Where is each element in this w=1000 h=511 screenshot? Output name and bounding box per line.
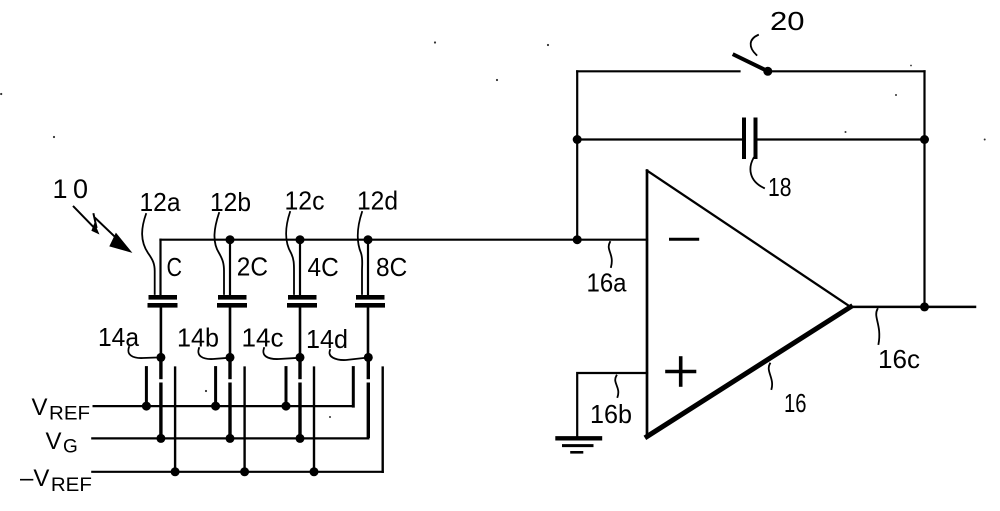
op-amp U16 triangle	[647, 171, 851, 437]
svg-text:8C: 8C	[376, 252, 407, 282]
wire feedback cap line right segment	[758, 138, 925, 140]
junction dot 14b on VG	[226, 434, 235, 443]
switch 14c	[286, 353, 314, 472]
switch 14d	[353, 353, 382, 472]
capacitor 18	[744, 120, 756, 158]
leader 12c	[286, 212, 294, 294]
svg-text:16c: 16c	[878, 344, 920, 374]
leader 14d	[329, 350, 364, 360]
junction dot 14b on VREF	[211, 402, 220, 411]
junction dot 14c on VREF	[282, 402, 291, 411]
svg-text:16a: 16a	[587, 268, 627, 298]
svg-text:12d: 12d	[357, 186, 398, 216]
switch 20 arm	[735, 55, 769, 71]
leader 18	[750, 158, 764, 188]
junction dot 14c on -VREF	[310, 467, 319, 476]
node junction dot 12b on bus	[226, 235, 235, 244]
minus sign inverting input	[671, 238, 698, 241]
switch 14b	[216, 353, 245, 472]
leader 16b	[615, 376, 618, 398]
capacitor 4C (12c)	[287, 240, 317, 357]
wire feedback cap line left segment	[577, 138, 741, 140]
svg-text:14d: 14d	[306, 324, 348, 354]
svg-text:14b: 14b	[177, 323, 219, 353]
leader 16c	[876, 309, 879, 344]
leader 16a	[609, 242, 612, 267]
junction dot output node	[920, 302, 929, 311]
wire feedback right vertical	[923, 71, 925, 307]
wire VG rail	[92, 437, 368, 439]
leader 20	[751, 35, 758, 55]
svg-text:14c: 14c	[242, 323, 284, 353]
node junction dot feedback tap on bus	[573, 235, 582, 244]
svg-text:14a: 14a	[98, 322, 140, 352]
wire noninverting input	[577, 373, 647, 438]
svg-text:16b: 16b	[590, 399, 632, 429]
svg-text:12a: 12a	[140, 187, 182, 217]
ground	[558, 438, 601, 452]
switch 14a	[146, 353, 175, 472]
capacitor C (12a)	[148, 240, 178, 357]
wire reset switch top left segment	[577, 70, 739, 72]
leader 12a	[142, 214, 155, 294]
wire top bus (summing node)	[161, 239, 648, 241]
capacitor 8C (12d)	[355, 240, 385, 357]
svg-text:12b: 12b	[210, 187, 251, 217]
leader 14b	[198, 348, 226, 359]
junction dot left on cap line	[573, 135, 582, 144]
svg-text:2C: 2C	[237, 252, 268, 282]
scan speckles	[0, 41, 986, 418]
junction dot right on cap line	[920, 135, 929, 144]
wire -VREF rail	[92, 471, 382, 473]
svg-text:20: 20	[770, 6, 805, 36]
svg-text:12c: 12c	[285, 186, 325, 216]
leader 14c	[263, 348, 296, 359]
junction dot 14b on -VREF	[240, 467, 249, 476]
junction dot 14a on VREF	[142, 402, 151, 411]
svg-text:4C: 4C	[308, 252, 339, 282]
wire VREF rail	[94, 405, 354, 407]
plus sign noninverting input	[667, 358, 695, 385]
svg-text:10: 10	[53, 174, 94, 204]
switch 20 contact dot	[763, 67, 772, 76]
svg-text:16: 16	[784, 388, 807, 418]
svg-text:18: 18	[768, 172, 792, 202]
leader 16	[769, 364, 772, 390]
leader 12b	[214, 213, 224, 294]
leader 12d	[358, 212, 363, 294]
wire feedback left vertical	[576, 71, 578, 239]
arrow to assembly 10	[74, 207, 131, 252]
capacitor 2C (12b)	[217, 240, 247, 357]
junction dot 14c on VG	[296, 434, 305, 443]
node junction dot 12d on bus	[364, 235, 373, 244]
svg-text:C: C	[167, 252, 183, 282]
junction dot 14a on VG	[156, 434, 165, 443]
node junction dot 12c on bus	[296, 235, 305, 244]
junction dot 14a on -VREF	[171, 467, 180, 476]
leader 14a	[128, 347, 156, 358]
wire reset switch top right segment	[768, 70, 925, 72]
wire output	[851, 306, 976, 309]
